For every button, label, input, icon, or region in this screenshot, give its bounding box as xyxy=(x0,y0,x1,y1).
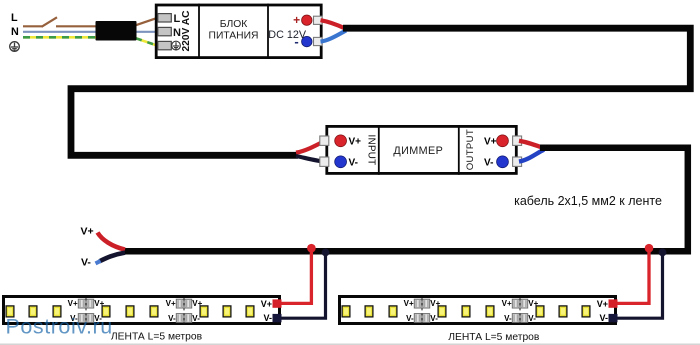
junction strip1 V- (navy dot) xyxy=(322,249,330,257)
svg-text:V+: V+ xyxy=(68,299,78,308)
svg-text:V-: V- xyxy=(599,313,608,323)
svg-text:V-: V- xyxy=(349,158,358,169)
switch S1 blade xyxy=(42,17,58,27)
wire L brown segment left xyxy=(23,25,42,27)
terminal lug output V+ xyxy=(513,136,522,145)
terminal N xyxy=(158,27,172,35)
resistor pad strip2-2b xyxy=(521,299,528,308)
terminal output V+ (red) xyxy=(497,135,509,147)
wire drop strip1 V- navy xyxy=(281,252,326,318)
svg-text:V+: V+ xyxy=(261,299,272,309)
wire L brown to terminal xyxy=(134,18,158,26)
svg-text:ДИММЕР: ДИММЕР xyxy=(393,145,443,157)
LED D24 xyxy=(438,306,446,317)
terminal - (blue) xyxy=(302,36,312,46)
svg-text:V-: V- xyxy=(528,314,536,323)
wire drop strip1 V+ red xyxy=(281,248,311,303)
resistor pad strip1-1c xyxy=(78,314,85,323)
svg-text:V-: V- xyxy=(430,314,438,323)
wire - navy into dimmer xyxy=(296,156,325,162)
wire + red dimmer out xyxy=(519,141,542,148)
svg-text:V+: V+ xyxy=(484,137,497,148)
wire PE yellow-green left xyxy=(23,36,97,39)
strip box xyxy=(4,297,280,324)
wire V- navy tail xyxy=(100,253,126,262)
LED D29 xyxy=(582,306,590,317)
resistor pad strip1-2a xyxy=(176,299,183,308)
LED D17 xyxy=(200,306,208,317)
earth symbol (mains PE) xyxy=(10,42,20,52)
LED D23 xyxy=(389,306,397,317)
LED D25 xyxy=(462,306,470,317)
svg-text:V+: V+ xyxy=(166,299,176,308)
resistor pad strip1-2b xyxy=(185,299,192,308)
svg-text:V+: V+ xyxy=(404,299,414,308)
svg-text:DC 12V: DC 12V xyxy=(268,29,307,41)
divider xyxy=(267,4,269,58)
divider xyxy=(198,4,200,58)
resistor pad strip1-2c xyxy=(176,314,183,323)
terminal lug input V- xyxy=(320,157,329,166)
terminal L xyxy=(158,14,172,22)
svg-text:V-: V- xyxy=(406,314,414,323)
junction strip1 V+ (red dot) xyxy=(307,244,316,253)
resistor pad strip1-1d xyxy=(87,314,94,323)
wire N blue xyxy=(23,31,158,33)
resistor pad strip2-1b xyxy=(423,299,430,308)
svg-text:V-: V- xyxy=(263,313,272,323)
svg-text:V+: V+ xyxy=(349,137,362,148)
svg-text:L: L xyxy=(11,12,18,24)
svg-text:220V AC: 220V AC xyxy=(181,10,192,52)
svg-text:V+: V+ xyxy=(430,299,440,308)
wire L brown segment right xyxy=(56,25,97,27)
cable sheath xyxy=(96,21,137,41)
resistor pad strip1-1b xyxy=(87,299,94,308)
svg-text:V-: V- xyxy=(168,314,176,323)
resistor pad strip2-1d xyxy=(423,314,430,323)
LED strip 1 xyxy=(4,297,282,324)
LED D12 xyxy=(29,306,37,317)
junction strip2 V- (navy dot) xyxy=(659,249,667,257)
wire + red PS out xyxy=(321,20,345,28)
LED D22 xyxy=(365,306,373,317)
terminal V+ strip2 (red pad) xyxy=(609,299,618,307)
terminal PE xyxy=(158,41,172,49)
svg-text:+: + xyxy=(293,13,300,27)
resistor pad strip2-2c xyxy=(512,314,519,323)
terminal input V- (blue) xyxy=(335,156,347,168)
terminal lug input V+ xyxy=(320,136,329,145)
resistor pad strip2-2a xyxy=(512,299,519,308)
cut line strip1-1 xyxy=(85,298,87,324)
wire V- blue tip xyxy=(96,261,101,264)
cable 2-core dimmer to strips xyxy=(124,148,688,251)
divider xyxy=(378,125,380,175)
svg-text:OUTPUT: OUTPUT xyxy=(465,129,476,170)
terminal V+ strip1 (red pad) xyxy=(273,299,282,307)
LED D18 xyxy=(223,306,231,317)
svg-text:V+: V+ xyxy=(94,299,104,308)
LED D11 xyxy=(6,306,14,317)
terminal V- strip1 (navy pad) xyxy=(273,314,282,322)
LED strip 2 xyxy=(340,297,618,324)
svg-text:V+: V+ xyxy=(528,299,538,308)
wire - blue dimmer out xyxy=(519,150,544,162)
bottom edge line xyxy=(0,344,700,345)
cut line strip1-2 xyxy=(183,298,185,324)
svg-text:ПИТАНИЯ: ПИТАНИЯ xyxy=(209,31,259,42)
svg-text:кабель 2х1,5 мм2 к ленте: кабель 2х1,5 мм2 к ленте xyxy=(514,194,662,208)
divider xyxy=(458,125,460,175)
cable 2-core PS to dimmer xyxy=(71,28,690,155)
svg-text:V+: V+ xyxy=(597,299,608,309)
wire V+ red tail xyxy=(98,233,126,250)
svg-text:L: L xyxy=(174,13,181,25)
terminal lug + xyxy=(314,16,323,24)
LED D27 xyxy=(536,306,544,317)
terminal V- strip2 (navy pad) xyxy=(609,314,618,322)
svg-text:-: - xyxy=(294,34,298,49)
cut line strip2-2 xyxy=(519,298,521,324)
cut line strip2-1 xyxy=(421,298,423,324)
resistor pad strip2-1c xyxy=(414,314,421,323)
terminal + (red) xyxy=(302,15,312,25)
earth symbol pin xyxy=(172,41,181,50)
svg-text:V-: V- xyxy=(192,314,200,323)
svg-text:БЛОК: БЛОК xyxy=(220,19,248,30)
terminal output V- (blue) xyxy=(497,156,509,168)
svg-text:ЛЕНТА L=5 метров: ЛЕНТА L=5 метров xyxy=(448,332,540,343)
svg-text:N: N xyxy=(11,26,19,38)
wire PE yellow-green to terminal xyxy=(134,38,158,46)
LED D16 xyxy=(150,306,158,317)
svg-text:V-: V- xyxy=(81,257,91,269)
strip box xyxy=(340,297,616,324)
dimmer U2 box xyxy=(327,126,517,173)
wire drop strip2 V- navy xyxy=(612,252,663,318)
resistor pad strip1-2d xyxy=(185,314,192,323)
resistor pad strip2-2d xyxy=(521,314,528,323)
terminal input V+ (red) xyxy=(335,135,347,147)
resistor pad strip2-1a xyxy=(414,299,421,308)
LED D14 xyxy=(102,306,110,317)
svg-text:ЛЕНТА L=5 метров: ЛЕНТА L=5 метров xyxy=(111,332,203,343)
power supply U1 box xyxy=(156,5,321,58)
svg-text:V+: V+ xyxy=(502,299,512,308)
svg-text:N: N xyxy=(173,27,181,39)
LED D21 xyxy=(342,306,350,317)
LED D19 xyxy=(246,306,254,317)
resistor pad strip1-1a xyxy=(78,299,85,308)
junction strip2 V+ (red dot) xyxy=(645,244,654,253)
LED D26 xyxy=(486,306,494,317)
wire drop strip2 V+ red xyxy=(612,248,649,303)
terminal lug - xyxy=(314,37,323,45)
svg-text:INPUT: INPUT xyxy=(365,135,376,166)
svg-text:V+: V+ xyxy=(192,299,202,308)
svg-text:Postroiv.ru: Postroiv.ru xyxy=(6,315,113,339)
LED D15 xyxy=(126,306,134,317)
svg-text:V+: V+ xyxy=(81,226,94,238)
wire - blue PS out xyxy=(321,31,347,42)
wire + red into dimmer xyxy=(296,141,325,153)
LED D28 xyxy=(559,306,567,317)
svg-text:V-: V- xyxy=(504,314,512,323)
LED D13 xyxy=(53,306,61,317)
svg-text:V-: V- xyxy=(484,158,493,169)
terminal lug output V- xyxy=(513,157,522,166)
